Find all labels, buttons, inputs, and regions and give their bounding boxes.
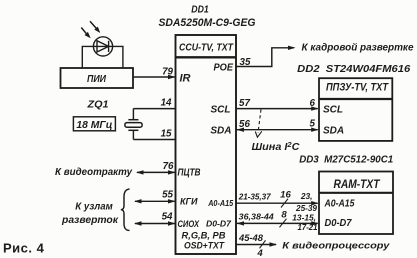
svg-text:4: 4	[256, 248, 263, 258]
svg-text:15: 15	[161, 128, 172, 139]
IC DD1 body outline	[176, 35, 237, 254]
photodiode mount frame	[82, 46, 123, 68]
wire SCL DD1 pin 57 to DD2 pin 6	[236, 106, 319, 110]
svg-text:A0-A15: A0-A15	[324, 198, 355, 209]
svg-text:К узлам: К узлам	[75, 202, 113, 213]
svg-text:ПИИ: ПИИ	[87, 74, 107, 85]
svg-text:POE: POE	[214, 63, 234, 74]
svg-text:76: 76	[163, 161, 174, 172]
svg-text:SCL: SCL	[323, 105, 343, 116]
photodiode (IR sensor)	[93, 37, 112, 56]
svg-text:18 МГц: 18 МГц	[76, 120, 112, 131]
svg-text:OSD+TXT: OSD+TXT	[184, 240, 225, 250]
svg-text:D0-D7: D0-D7	[206, 219, 232, 229]
data bus width slash	[280, 219, 287, 228]
crystal value box 18 МГц	[73, 117, 115, 131]
svg-text:SCL: SCL	[211, 105, 231, 116]
svg-text:16: 16	[280, 189, 291, 200]
svg-text:23,: 23,	[300, 191, 313, 201]
svg-text:СИОХ: СИОХ	[178, 218, 200, 229]
svg-text:Рис. 4: Рис. 4	[3, 241, 45, 256]
svg-text:ZQ1: ZQ1	[86, 99, 109, 110]
svg-text:6: 6	[310, 98, 316, 109]
svg-text:DD3 M27C512-90C1: DD3 M27C512-90C1	[299, 154, 393, 165]
svg-text:54: 54	[162, 211, 173, 222]
svg-text:A0-A15: A0-A15	[207, 198, 233, 208]
light arrow 2 into photodiode	[90, 21, 100, 33]
IC DD3 header separator	[319, 192, 393, 194]
wire DD1 pin 35 POE to frame scan	[236, 46, 296, 67]
svg-text:RAM-TXT: RAM-TXT	[334, 178, 381, 191]
svg-text:45-48: 45-48	[238, 233, 263, 243]
svg-text:К видеотракту: К видеотракту	[55, 167, 133, 178]
wire DD1 pin 55 КГИ to scan units (bidirectional)	[134, 199, 176, 203]
IC DD2 header separator	[319, 98, 392, 100]
svg-text:D0-D7: D0-D7	[325, 218, 352, 229]
svg-text:SDA: SDA	[323, 125, 344, 136]
svg-text:35: 35	[240, 57, 251, 68]
IC DD1 header box separator	[176, 56, 237, 58]
wire DD1 pin 76 to video path (bidirectional)	[136, 170, 176, 174]
svg-text:Шина I2C: Шина I2C	[252, 142, 301, 153]
svg-text:79: 79	[162, 67, 173, 78]
address bus width slash	[281, 199, 288, 208]
svg-text:КГИ: КГИ	[180, 196, 198, 207]
data bus wire DD1 pins 36,38-44 to DD3 (bidirectional)	[237, 221, 319, 225]
light arrow 1 into photodiode	[81, 28, 90, 39]
svg-text:разверток: разверток	[61, 215, 119, 226]
svg-text:56: 56	[239, 119, 250, 130]
svg-text:25-39: 25-39	[295, 203, 317, 213]
address bus wire DD1 pins 21-35,37 to DD3	[236, 201, 319, 205]
svg-text:14: 14	[161, 98, 172, 109]
crystal ZQ1 symbol	[125, 109, 142, 140]
svg-text:36,38-44: 36,38-44	[239, 211, 274, 221]
svg-text:ППЗУ-TV, TXT: ППЗУ-TV, TXT	[326, 81, 389, 93]
svg-text:CCU-TV, TXT: CCU-TV, TXT	[179, 42, 234, 53]
IC DD3 body outline	[319, 172, 393, 235]
svg-text:DD1: DD1	[191, 4, 209, 16]
svg-text:5: 5	[310, 119, 316, 130]
svg-text:DD2 ST24W04FM616: DD2 ST24W04FM616	[297, 64, 410, 75]
wire DD1 pin 54 СИОХ to scan units (bidirectional)	[134, 221, 176, 225]
RGB bus width slash	[260, 240, 266, 248]
svg-text:R,G,B, РВ: R,G,B, РВ	[182, 231, 227, 241]
svg-text:13-15,: 13-15,	[292, 212, 316, 222]
svg-text:К кадровой развертке: К кадровой развертке	[302, 43, 414, 54]
svg-text:17-21: 17-21	[298, 222, 318, 232]
svg-text:SDA: SDA	[210, 126, 231, 137]
brace for scan unit signals	[121, 189, 130, 231]
svg-text:57: 57	[239, 98, 250, 109]
IR receiver module box ПИИ	[61, 68, 134, 88]
svg-text:SDA5250M-C9-GEG: SDA5250M-C9-GEG	[159, 17, 256, 29]
wire SDA DD1 pin 56 to DD2 pin 5 (bidirectional)	[237, 128, 319, 132]
svg-text:IR: IR	[180, 73, 191, 85]
I2C bus leader line	[255, 110, 261, 138]
svg-text:8: 8	[281, 209, 287, 220]
svg-text:ПЦТВ: ПЦТВ	[178, 168, 201, 179]
wire ПИИ to DD1 pin 79	[133, 75, 176, 79]
svg-text:21-35,37: 21-35,37	[238, 191, 271, 201]
IC DD2 body outline	[319, 78, 392, 141]
RGB output bus wire DD1 pins 45-48 to video processor	[236, 242, 277, 246]
wire DD1 pin 14 to crystal	[133, 108, 175, 110]
svg-text:К видеопроцессору: К видеопроцессору	[282, 241, 390, 252]
wire crystal to DD1 pin 15	[133, 139, 175, 141]
svg-text:55: 55	[162, 190, 173, 201]
